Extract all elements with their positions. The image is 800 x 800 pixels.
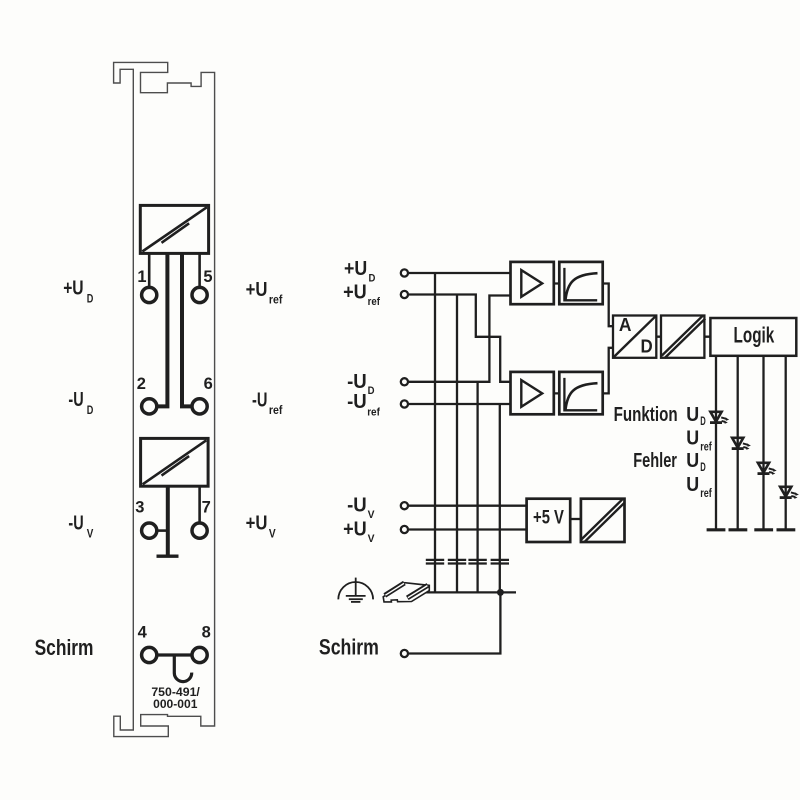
svg-text:7: 7 xyxy=(202,499,211,517)
svg-text:-U: -U xyxy=(347,371,367,393)
svg-text:V: V xyxy=(368,533,376,545)
svg-text:-U: -U xyxy=(68,389,83,411)
svg-text:V: V xyxy=(368,509,376,521)
svg-text:6: 6 xyxy=(204,375,213,393)
svg-text:D: D xyxy=(87,403,94,417)
svg-text:-U: -U xyxy=(68,513,83,535)
svg-text:2: 2 xyxy=(137,375,146,393)
svg-text:750-491/: 750-491/ xyxy=(151,687,200,699)
svg-text:8: 8 xyxy=(202,624,211,642)
svg-text:+U: +U xyxy=(246,279,268,301)
svg-text:A: A xyxy=(619,315,632,335)
svg-text:-U: -U xyxy=(347,495,367,517)
svg-text:000-001: 000-001 xyxy=(153,699,198,711)
svg-text:ref: ref xyxy=(700,442,712,454)
svg-text:+U: +U xyxy=(246,513,268,535)
svg-text:Logik: Logik xyxy=(734,322,775,347)
svg-text:Schirm: Schirm xyxy=(35,635,94,660)
svg-text:U: U xyxy=(686,474,699,496)
svg-text:ref: ref xyxy=(367,407,380,419)
svg-text:ref: ref xyxy=(269,403,283,417)
svg-text:U: U xyxy=(686,450,699,472)
svg-text:D: D xyxy=(369,273,376,285)
svg-text:+U: +U xyxy=(343,282,367,304)
svg-text:+U: +U xyxy=(343,519,367,541)
svg-text:3: 3 xyxy=(135,499,144,517)
svg-text:+5 V: +5 V xyxy=(533,508,564,529)
svg-text:-U: -U xyxy=(347,391,367,413)
svg-text:+U: +U xyxy=(344,258,367,280)
svg-text:D: D xyxy=(641,337,653,357)
svg-text:Funktion: Funktion xyxy=(614,404,678,426)
svg-text:4: 4 xyxy=(138,624,148,642)
svg-text:Fehler: Fehler xyxy=(633,450,677,472)
svg-text:Schirm: Schirm xyxy=(319,634,379,659)
svg-text:ref: ref xyxy=(368,296,381,308)
svg-text:ref: ref xyxy=(269,293,283,307)
svg-text:ref: ref xyxy=(700,488,712,500)
svg-text:D: D xyxy=(700,462,706,474)
svg-text:D: D xyxy=(368,385,375,397)
svg-text:5: 5 xyxy=(203,268,212,286)
svg-text:-U: -U xyxy=(252,390,267,412)
svg-text:U: U xyxy=(686,428,699,450)
svg-text:U: U xyxy=(686,404,699,426)
svg-text:V: V xyxy=(269,527,276,541)
svg-text:D: D xyxy=(700,416,706,428)
svg-text:D: D xyxy=(87,292,94,306)
svg-text:+U: +U xyxy=(63,278,83,300)
svg-text:1: 1 xyxy=(137,268,146,286)
svg-text:V: V xyxy=(87,527,94,541)
